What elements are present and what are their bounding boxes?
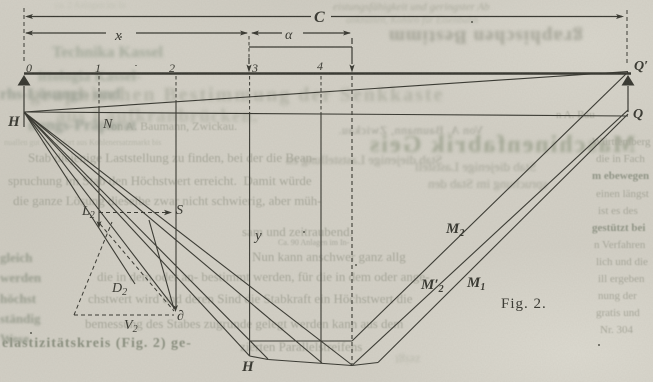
arrowhead C left: [25, 14, 33, 19]
node 3 vertical: [249, 76, 251, 112]
node 2 vertical: [175, 76, 177, 102]
dashed triangle V2: [74, 222, 174, 315]
support triangle right: [622, 75, 635, 86]
svg-text:H: H: [241, 359, 255, 375]
load vertical dashed: [351, 76, 353, 364]
svg-text:L2: L2: [81, 204, 95, 221]
left margin bold fragments: [0, 250, 33, 266]
faded headline of overleaf page: [30, 84, 444, 107]
ghost bleed-through text layer: [333, 1, 490, 13]
svg-text:V2: V2: [124, 318, 138, 335]
wire: base line H to Q: [24, 112, 628, 116]
wire: alpha dimension line: [252, 32, 350, 34]
dust specks: [120, 36, 122, 38]
svg-text:M2: M2: [445, 221, 464, 239]
svg-text:3: 3: [251, 61, 258, 75]
big advert bleed right: [368, 132, 635, 159]
svg-text:C: C: [314, 9, 325, 26]
node: left extension tick: [23, 8, 25, 62]
node: right extension tick: [626, 10, 628, 66]
wire: fan line F2 to d: [24, 112, 174, 307]
svg-text:∂: ∂: [177, 309, 184, 324]
node 3 arrow stem: [248, 36, 250, 58]
svg-text:4: 4: [317, 59, 323, 73]
arrowhead alpha left: [251, 31, 259, 36]
node 4 vertical: [320, 76, 322, 113]
wire: load bracket: [249, 38, 352, 64]
svg-text:Fig. 2.: Fig. 2.: [501, 296, 547, 312]
svg-text:0: 0: [26, 61, 32, 75]
svg-text:S: S: [176, 203, 183, 218]
arrowhead load 3 down: [246, 65, 251, 73]
svg-text:M1: M1: [466, 275, 485, 293]
wire: x dimension line: [26, 32, 247, 34]
wire: fan line B to point 4 foot: [24, 112, 322, 363]
right margin column: [592, 136, 650, 148]
arrowhead C right: [616, 14, 624, 19]
wire: bottom envelope: [250, 356, 378, 366]
wire: fan line A to load foot: [24, 112, 352, 365]
svg-text:Q′: Q′: [634, 59, 648, 74]
wire: horizontal chord: [250, 340, 352, 342]
svg-text:1: 1: [95, 61, 101, 75]
support post left: [23, 86, 25, 127]
wire: top span dimension line C: [27, 16, 622, 18]
arrowhead under 2 down: [173, 305, 178, 312]
wire: moment line M1 to Q: [378, 114, 628, 363]
wire: fan line F1: [24, 112, 135, 284]
wire: main beam: [24, 72, 631, 75]
svg-text:2: 2: [169, 61, 175, 75]
node 1 vertical: [98, 76, 100, 106]
arrowhead x left: [25, 31, 33, 36]
wire: moment line M2 to Q': [352, 72, 628, 341]
bold greenish advert bleed, left block: [52, 44, 163, 62]
wire: fan line D1: [24, 112, 268, 359]
svg-text:D2: D2: [111, 281, 127, 298]
arrowhead load bracket down: [349, 65, 354, 73]
wire: moment line M'2 to Q: [352, 110, 628, 366]
svg-text:H: H: [7, 114, 21, 130]
svg-text:Q: Q: [633, 107, 643, 122]
arrowhead alpha right: [343, 31, 351, 36]
dashed arrow S: [99, 212, 166, 214]
svg-text:N: N: [102, 117, 113, 132]
wire: rising closing line to Q': [24, 72, 628, 113]
svg-text:M′2: M′2: [420, 277, 444, 295]
svg-text:α: α: [285, 28, 293, 43]
arrowhead S right: [164, 210, 172, 216]
support triangle left: [18, 75, 31, 86]
arrowhead x right: [240, 31, 248, 36]
wire: fan line D2: [24, 112, 250, 356]
support post right: [627, 86, 629, 112]
svg-text:y: y: [253, 228, 262, 244]
wire: steep drop segment to d: [149, 220, 174, 309]
body text of the article (faded): [28, 150, 316, 166]
arrowhead under 1 down: [97, 221, 102, 228]
svg-text:x: x: [114, 28, 122, 44]
